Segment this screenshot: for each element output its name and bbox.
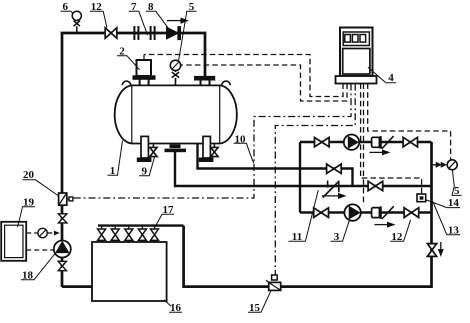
flow arrow top branch xyxy=(370,150,390,155)
leader 1 xyxy=(108,141,123,176)
wire manifold 17 line xyxy=(98,224,184,226)
drain valve 9 left xyxy=(150,145,157,157)
pump 18 xyxy=(54,241,71,258)
valve 12 top xyxy=(105,28,117,38)
wire pump bottom branch xyxy=(300,211,432,213)
flange joints 7 xyxy=(134,26,154,40)
flow arrow top xyxy=(167,18,188,23)
svg-text:7: 7 xyxy=(131,1,137,13)
pump 3 xyxy=(344,204,360,220)
flow arrow bottom branch xyxy=(375,222,395,227)
valve 13 on riser xyxy=(427,244,436,257)
svg-text:16: 16 xyxy=(170,302,182,314)
leader 5 top xyxy=(179,11,197,61)
signal wire 10 cabinet to filter 20 xyxy=(73,84,351,199)
signal dash thermometer to line xyxy=(26,232,38,234)
leader 18 xyxy=(21,253,56,280)
filter 20 xyxy=(59,193,73,205)
tank 1 shell xyxy=(115,85,237,143)
leader 7 xyxy=(129,11,148,35)
valve bottom branch left xyxy=(314,208,329,218)
valve top branch left xyxy=(315,137,330,146)
leader 12 right xyxy=(390,220,410,242)
leader 11 xyxy=(289,190,319,241)
pressure sensor 14 xyxy=(417,194,426,202)
heater box 16 xyxy=(92,242,167,301)
leader 20 xyxy=(23,180,59,196)
svg-text:17: 17 xyxy=(163,204,175,216)
tank leg right xyxy=(199,136,213,161)
leader 5 right xyxy=(452,170,462,195)
tank lifting lug left xyxy=(122,81,130,85)
wire line B from tank bottom nozzle xyxy=(175,152,432,186)
svg-text:10: 10 xyxy=(235,133,247,145)
tank top-right nozzle flange xyxy=(195,76,215,86)
signal wire c1 cabinet to device 2 xyxy=(144,55,343,97)
leader 19 xyxy=(18,207,36,227)
svg-text:15: 15 xyxy=(249,302,261,314)
expansion tank 19 xyxy=(1,222,26,261)
svg-text:6: 6 xyxy=(62,1,68,13)
svg-text:12: 12 xyxy=(391,231,403,243)
svg-text:20: 20 xyxy=(23,169,35,181)
tank bottom nozzle flange xyxy=(165,145,187,153)
gauge 6 with cock xyxy=(72,11,81,33)
leader 15 xyxy=(248,291,271,312)
control cabinet 4 xyxy=(336,28,377,84)
valve on line A xyxy=(327,164,342,173)
valve below pump 18 xyxy=(58,261,66,270)
leader 10 xyxy=(234,143,255,163)
tank lifting lug right xyxy=(222,81,230,85)
valve 12 bottom right xyxy=(404,208,419,218)
down arrow right xyxy=(439,242,443,256)
svg-text:12: 12 xyxy=(91,1,103,13)
leader 13 xyxy=(433,202,460,235)
leader 12 xyxy=(90,11,107,27)
svg-text:3: 3 xyxy=(334,231,340,243)
svg-text:5: 5 xyxy=(189,1,195,13)
signal wire c5 cabinet to sensor 14 xyxy=(361,84,422,195)
pump top xyxy=(344,135,359,150)
svg-text:1: 1 xyxy=(110,165,116,177)
valve on line B right xyxy=(368,181,383,190)
flow meter 15 xyxy=(266,275,281,290)
leader 16 xyxy=(164,300,182,313)
wire right riser and bottom return line xyxy=(184,142,432,287)
gauge 5 right xyxy=(436,160,457,170)
leader 8 xyxy=(146,11,168,28)
svg-text:8: 8 xyxy=(148,1,154,13)
arrow into line xyxy=(54,231,60,236)
manifold valves 17 xyxy=(98,226,159,242)
leader 3 xyxy=(331,221,350,242)
svg-text:14: 14 xyxy=(448,197,460,209)
signal wire c6 cabinet to pump 3 xyxy=(363,84,365,204)
wire line A from tank bottom stub xyxy=(198,143,353,186)
leader 14 xyxy=(427,200,461,208)
tank leg left xyxy=(137,136,151,161)
safety device 2 on tank xyxy=(137,55,152,77)
check valve with slash bottom xyxy=(372,206,394,219)
signal wire c4 cabinet to meter 15 xyxy=(275,84,355,276)
leader 4 xyxy=(368,67,396,82)
wire pump group left header xyxy=(299,142,301,213)
check valve 8 xyxy=(167,27,181,40)
wire gauge stub right xyxy=(432,164,437,166)
signal wire c2 cabinet to gauge 5 xyxy=(181,65,347,101)
svg-text:13: 13 xyxy=(448,224,460,236)
wire pump top branch xyxy=(300,141,432,143)
signal dash tank19 to pump18 xyxy=(26,249,53,251)
svg-text:11: 11 xyxy=(292,231,302,243)
svg-text:18: 18 xyxy=(22,269,34,281)
wire top supply line xyxy=(62,33,205,287)
valve above pump 18 xyxy=(58,214,66,223)
svg-text:4: 4 xyxy=(388,72,394,84)
svg-text:2: 2 xyxy=(119,45,125,57)
wire pump18 outlet to box16 xyxy=(62,285,92,288)
control valve 11 slash xyxy=(323,181,340,198)
svg-text:9: 9 xyxy=(141,165,147,177)
flow arrow line B xyxy=(322,194,345,199)
svg-text:5: 5 xyxy=(454,185,460,197)
leader 2 xyxy=(117,56,140,70)
pressure gauge 5 on tank top xyxy=(170,60,180,86)
leader 9 xyxy=(139,157,154,176)
leader 17 xyxy=(155,214,174,227)
drain valve right xyxy=(211,145,218,157)
check valve with slash top xyxy=(372,136,394,149)
signal wire c7 cabinet to gauge 5 right xyxy=(368,84,451,161)
svg-text:19: 19 xyxy=(23,196,35,208)
leader 6 xyxy=(61,11,74,13)
valve top branch right xyxy=(403,137,417,147)
thermometer circle xyxy=(38,228,47,237)
tank top-left nozzle flange xyxy=(133,76,155,86)
